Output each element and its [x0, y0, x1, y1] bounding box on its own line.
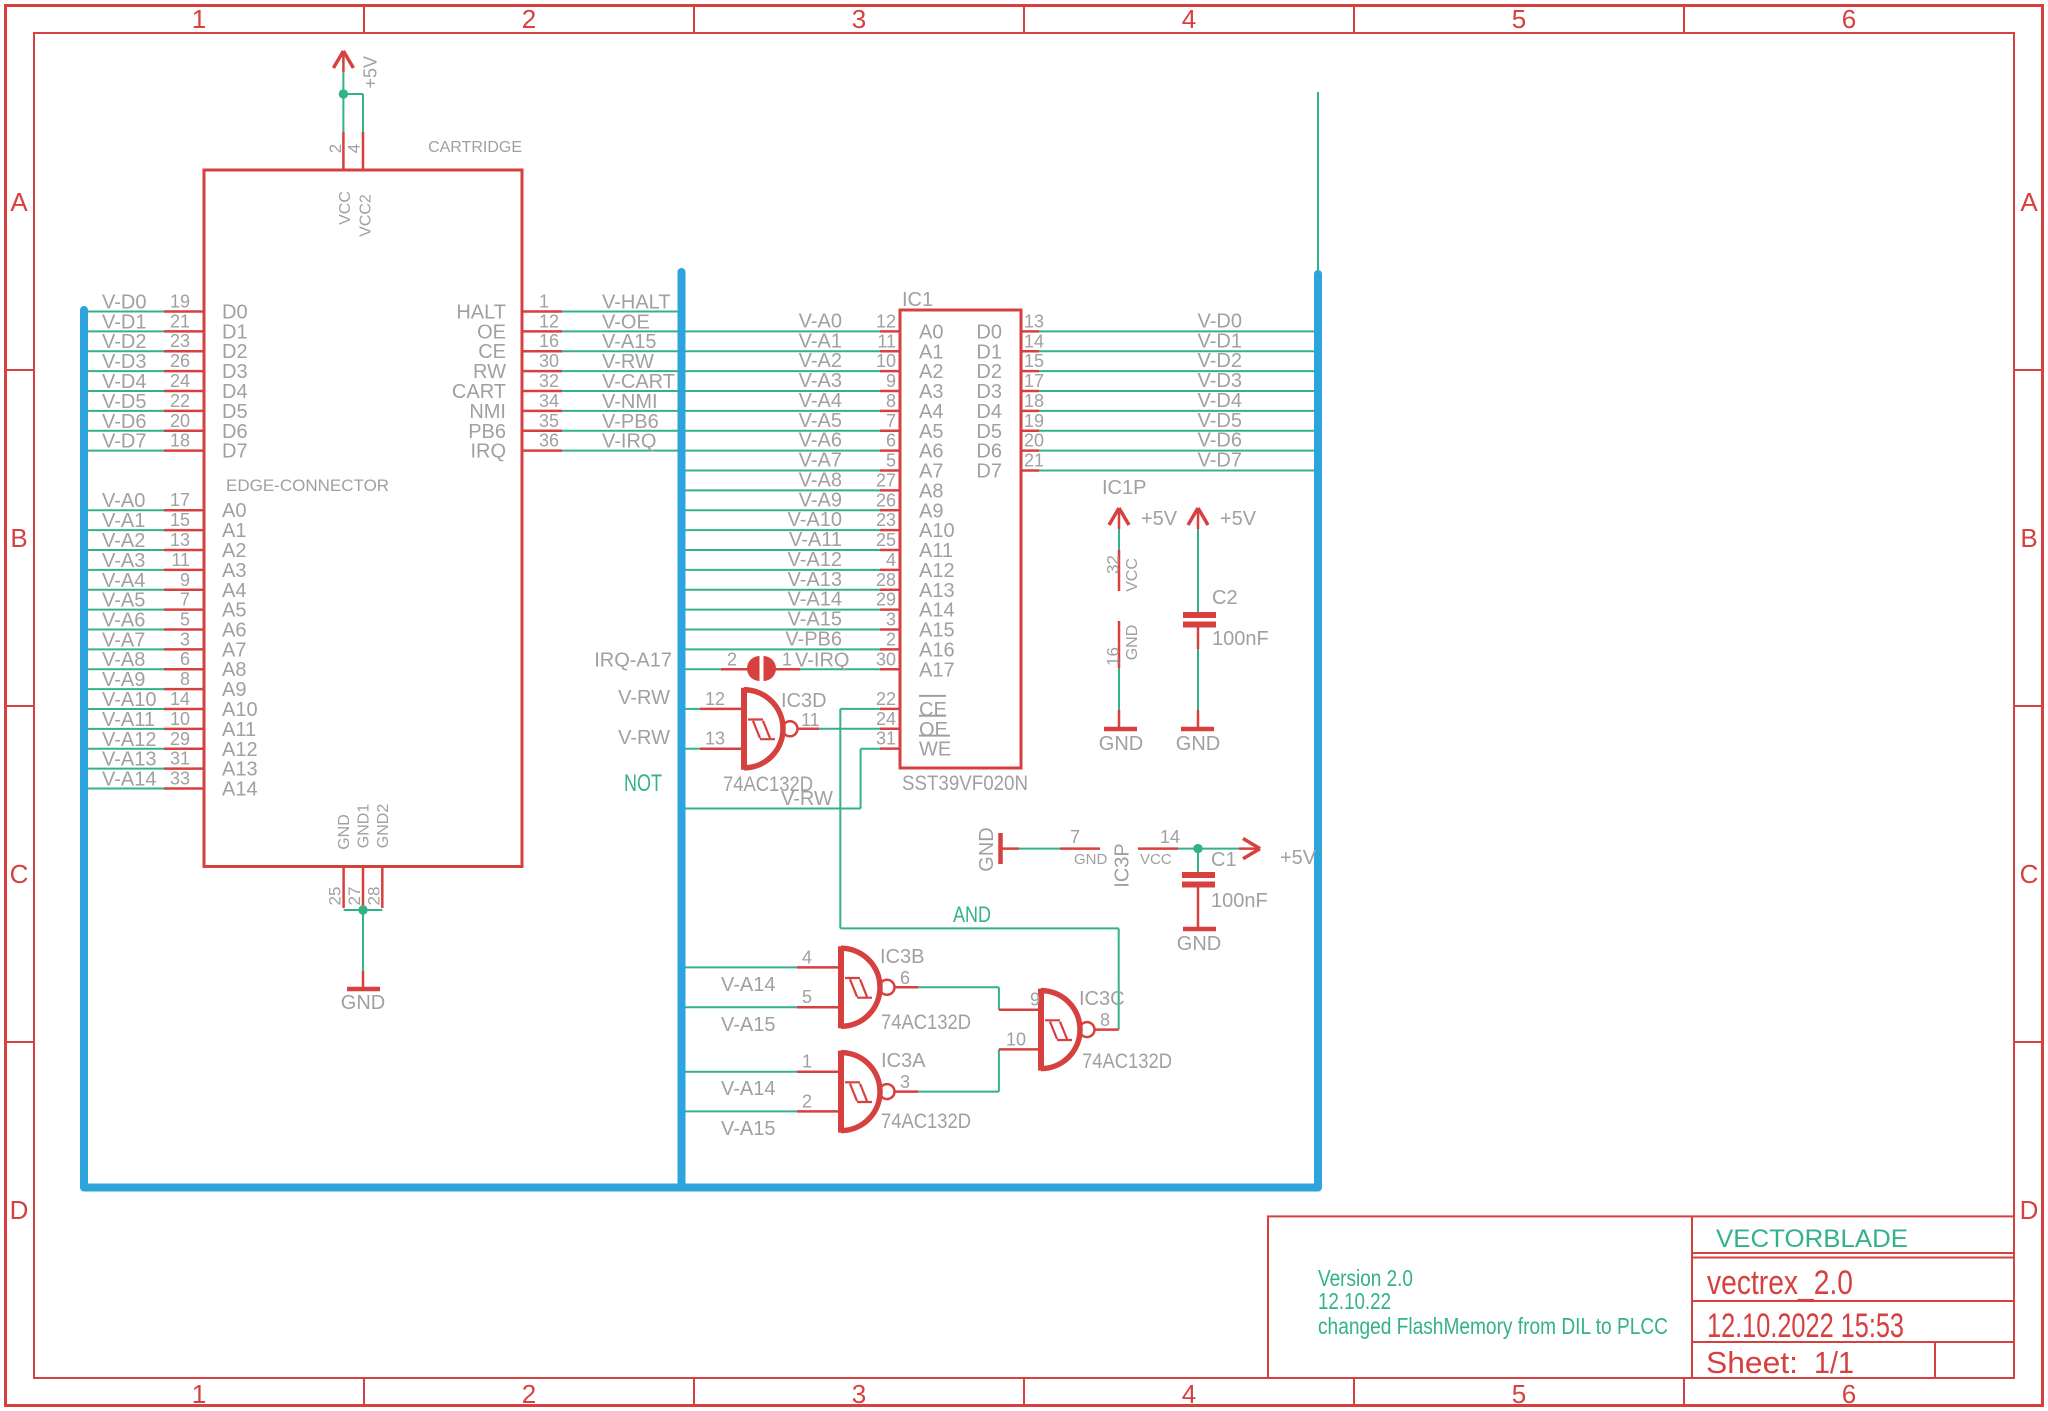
svg-text:D3: D3: [976, 381, 1002, 403]
svg-text:31: 31: [170, 749, 190, 769]
svg-text:A6: A6: [919, 441, 943, 463]
svg-text:74AC132D: 74AC132D: [881, 1110, 971, 1133]
svg-text:V-A14: V-A14: [721, 1078, 775, 1100]
wire V-D3 (IC1 D3 to bus): [1039, 370, 1314, 392]
ground (C2): [1176, 710, 1220, 755]
svg-text:6: 6: [1842, 1379, 1856, 1409]
svg-text:8: 8: [180, 669, 190, 689]
wire IC3B output to IC3C pin 9: [918, 987, 999, 1009]
svg-text:21: 21: [170, 311, 190, 331]
svg-text:V-A10: V-A10: [102, 689, 156, 711]
svg-text:OE: OE: [919, 719, 948, 741]
capacitor C1 100nF: [1182, 849, 1268, 912]
svg-text:V-A12: V-A12: [788, 549, 842, 571]
svg-text:V-D3: V-D3: [102, 351, 146, 373]
junction at cartridge +5V: [339, 89, 348, 98]
svg-text:CARTRIDGE: CARTRIDGE: [428, 139, 522, 156]
svg-text:D5: D5: [222, 401, 248, 423]
svg-text:A8: A8: [222, 659, 246, 681]
bus middle: [678, 272, 686, 1188]
svg-text:9: 9: [1030, 990, 1040, 1010]
svg-text:14: 14: [1160, 827, 1180, 847]
svg-text:36: 36: [539, 431, 559, 451]
svg-text:V-D7: V-D7: [102, 431, 146, 453]
svg-text:V-D2: V-D2: [102, 331, 146, 353]
svg-text:A8: A8: [919, 480, 943, 502]
svg-text:9: 9: [180, 570, 190, 590]
svg-text:C: C: [2020, 859, 2039, 889]
wire V-A1 (edge connector): [87, 510, 164, 532]
svg-text:100nF: 100nF: [1211, 890, 1268, 912]
wire V-PB6 (bus to IC1 A16): [685, 628, 880, 650]
svg-text:1: 1: [192, 1379, 206, 1409]
svg-text:VCC: VCC: [337, 191, 354, 225]
svg-text:74AC132D: 74AC132D: [881, 1011, 971, 1034]
svg-text:C1: C1: [1211, 849, 1237, 871]
svg-text:D1: D1: [222, 321, 248, 343]
svg-text:2: 2: [326, 144, 345, 153]
svg-text:D3: D3: [222, 361, 248, 383]
junction at C1/+5V: [1193, 844, 1202, 853]
svg-text:26: 26: [170, 351, 190, 371]
svg-text:12.10.2022 15:53: 12.10.2022 15:53: [1707, 1307, 1904, 1345]
svg-text:18: 18: [1024, 391, 1044, 411]
wire V-A14 (bus to IC3A pin 1): [685, 1072, 797, 1100]
wire V-A14 (bus to IC3B pin 4): [685, 967, 797, 996]
svg-text:13: 13: [705, 729, 725, 749]
wire V-D0: [87, 292, 164, 314]
svg-text:V-D0: V-D0: [1198, 310, 1242, 332]
svg-text:IC3B: IC3B: [880, 946, 924, 968]
svg-text:V-IRQ: V-IRQ: [795, 649, 849, 671]
svg-text:V-A13: V-A13: [788, 569, 842, 591]
wire V-A10 (edge connector): [87, 689, 164, 711]
svg-text:A14: A14: [919, 600, 955, 622]
wire V-A11 (bus to IC1 A11): [685, 529, 880, 551]
wire V-A8 (edge connector): [87, 649, 164, 671]
wire V-D7 (IC1 D7 to bus): [1039, 450, 1314, 472]
wire V-D0 (IC1 D0 to bus): [1039, 310, 1314, 332]
wire V-RW (cartridge to bus): [562, 351, 678, 373]
svg-text:IRQ-A17: IRQ-A17: [594, 649, 672, 671]
svg-text:V-D0: V-D0: [102, 292, 146, 314]
svg-text:V-A15: V-A15: [721, 1014, 775, 1036]
wire V-A2 (edge connector): [87, 530, 164, 552]
svg-text:11: 11: [877, 331, 896, 351]
svg-text:V-RW: V-RW: [618, 687, 670, 709]
svg-text:6: 6: [886, 431, 896, 451]
+5V supply (cartridge VCC): [333, 51, 380, 89]
svg-text:V-CART: V-CART: [602, 371, 675, 393]
wire V-A8 (bus to IC1 A8): [685, 469, 880, 491]
svg-text:4: 4: [886, 550, 896, 570]
svg-text:3: 3: [852, 4, 866, 34]
wire V-A15 (cartridge to bus): [562, 331, 678, 353]
ground (IC1P): [1099, 710, 1143, 755]
wire V-A9 (edge connector): [87, 669, 164, 691]
wire V-A6 (edge connector): [87, 610, 164, 632]
wire IC1 CE to IC3C output (AND): [840, 709, 1118, 1030]
svg-text:A5: A5: [919, 421, 943, 443]
svg-text:PB6: PB6: [468, 421, 506, 443]
svg-text:4: 4: [802, 947, 812, 967]
wire V-D7: [87, 431, 164, 453]
svg-text:changed FlashMemory from DIL t: changed FlashMemory from DIL to PLCC: [1318, 1313, 1668, 1339]
svg-text:A: A: [10, 187, 28, 217]
wire V-A13 (bus to IC1 A13): [685, 569, 880, 591]
svg-text:V-RW: V-RW: [618, 727, 670, 749]
svg-text:V-D3: V-D3: [1198, 370, 1242, 392]
svg-text:3: 3: [900, 1072, 910, 1092]
svg-text:EDGE-CONNECTOR: EDGE-CONNECTOR: [226, 476, 389, 495]
wire V-D4: [87, 371, 164, 393]
svg-text:D2: D2: [976, 361, 1002, 383]
wire V-A15 (bus to IC3B pin 5): [685, 1007, 797, 1036]
svg-text:V-D6: V-D6: [1198, 430, 1242, 452]
svg-text:1: 1: [782, 649, 792, 669]
svg-text:IC3P: IC3P: [1112, 843, 1134, 887]
svg-text:GND2: GND2: [375, 804, 392, 849]
nand gate IC3C 74AC132D: [999, 988, 1172, 1073]
svg-text:4: 4: [1182, 1379, 1196, 1409]
svg-text:A4: A4: [222, 580, 246, 602]
svg-text:A12: A12: [919, 560, 955, 582]
svg-text:IC1P: IC1P: [1102, 477, 1146, 499]
svg-text:A0: A0: [222, 500, 246, 522]
svg-text:5: 5: [1512, 4, 1526, 34]
svg-text:V-RW: V-RW: [602, 351, 654, 373]
svg-text:NOT: NOT: [624, 770, 662, 797]
svg-text:A13: A13: [919, 580, 955, 602]
IC3P VCC pin 14: [1138, 827, 1180, 868]
svg-text:31: 31: [876, 729, 896, 749]
svg-text:12: 12: [539, 311, 559, 331]
svg-text:V-D4: V-D4: [102, 371, 146, 393]
svg-text:16: 16: [1104, 647, 1123, 666]
wire V-HALT (cartridge to bus): [562, 292, 678, 314]
wire stub above right bus: [1317, 92, 1319, 270]
svg-text:A4: A4: [919, 401, 943, 423]
wire V-RW (bus to IC3D pin 12): [618, 687, 700, 709]
svg-text:8: 8: [886, 391, 896, 411]
wire V-A2 (bus to IC1 A2): [685, 350, 880, 372]
svg-text:+5V: +5V: [360, 56, 380, 89]
wire V-A15 (bus to IC1 A15): [685, 609, 880, 631]
svg-text:22: 22: [876, 689, 896, 709]
wire V-A13 (edge connector): [87, 749, 164, 771]
svg-text:28: 28: [364, 887, 383, 906]
+5V supply (IC1P VCC): [1102, 477, 1178, 530]
svg-text:D7: D7: [976, 461, 1002, 483]
svg-text:16: 16: [539, 331, 559, 351]
svg-text:V-PB6: V-PB6: [785, 628, 842, 650]
svg-text:A7: A7: [222, 639, 246, 661]
wire V-A6 (bus to IC1 A6): [685, 430, 880, 452]
svg-text:33: 33: [170, 769, 190, 789]
svg-text:4: 4: [1182, 4, 1196, 34]
svg-text:3: 3: [886, 610, 896, 630]
svg-text:A6: A6: [222, 620, 246, 642]
svg-text:24: 24: [170, 371, 190, 391]
junction at cartridge GND: [358, 905, 367, 914]
svg-text:V-HALT: V-HALT: [602, 292, 671, 314]
wire IC3D output to IC1 OE: [819, 728, 880, 730]
svg-text:V-A4: V-A4: [799, 390, 842, 412]
svg-text:15: 15: [170, 510, 190, 530]
svg-text:V-PB6: V-PB6: [602, 411, 659, 433]
svg-text:IC1: IC1: [902, 289, 933, 311]
svg-text:5: 5: [180, 610, 190, 630]
svg-text:V-OE: V-OE: [602, 311, 650, 333]
svg-text:OE: OE: [477, 321, 506, 343]
label NOT: [624, 770, 662, 797]
svg-text:V-A1: V-A1: [799, 330, 842, 352]
wire V-A5 (edge connector): [87, 590, 164, 612]
svg-text:28: 28: [876, 570, 896, 590]
wire V-D4 (IC1 D4 to bus): [1039, 390, 1314, 412]
wire V-A7 (edge connector): [87, 629, 164, 651]
svg-text:V-A8: V-A8: [799, 469, 842, 491]
svg-text:+5V: +5V: [1220, 508, 1257, 530]
svg-text:V-A11: V-A11: [102, 709, 155, 731]
svg-text:V-A6: V-A6: [102, 610, 145, 632]
svg-text:30: 30: [539, 351, 559, 371]
svg-text:D1: D1: [976, 341, 1002, 363]
svg-text:14: 14: [1024, 331, 1044, 351]
ground (cartridge): [341, 971, 385, 1014]
wire V-D5: [87, 391, 164, 413]
svg-text:27: 27: [876, 470, 896, 490]
svg-text:V-A10: V-A10: [788, 509, 842, 531]
svg-text:GND: GND: [1177, 933, 1221, 955]
svg-text:CE: CE: [478, 341, 506, 363]
svg-text:V-RW: V-RW: [781, 788, 833, 810]
wire V-A10 (bus to IC1 A10): [685, 509, 880, 531]
wire V-A0 (edge connector): [87, 490, 164, 512]
svg-text:74AC132D: 74AC132D: [1082, 1050, 1172, 1073]
svg-text:D4: D4: [222, 381, 248, 403]
IC3P GND pin 7: [1060, 827, 1134, 888]
wire V-OE (cartridge to bus): [562, 311, 678, 333]
wire V-A7 (bus to IC1 A7): [685, 450, 880, 472]
svg-text:V-IRQ: V-IRQ: [602, 431, 656, 453]
svg-text:SST39VF020N: SST39VF020N: [902, 772, 1028, 795]
svg-text:A12: A12: [222, 739, 258, 761]
wire V-D2 (IC1 D2 to bus): [1039, 350, 1314, 372]
wire V-D6 (IC1 D6 to bus): [1039, 430, 1314, 452]
svg-text:A3: A3: [222, 560, 246, 582]
svg-text:vectrex_2.0: vectrex_2.0: [1707, 1264, 1853, 1302]
svg-text:7: 7: [886, 411, 896, 431]
svg-text:V-D5: V-D5: [102, 391, 146, 413]
wire IRQ-A17 (bus to jumper pin 2): [594, 649, 749, 671]
svg-text:D0: D0: [222, 302, 248, 324]
svg-text:A17: A17: [919, 659, 955, 681]
svg-text:A5: A5: [222, 600, 246, 622]
svg-text:CART: CART: [452, 381, 506, 403]
wire C1 to ground: [1197, 888, 1200, 930]
svg-text:NMI: NMI: [469, 401, 506, 423]
IC1P GND pin 16: [1104, 621, 1142, 668]
svg-text:V-A9: V-A9: [799, 489, 842, 511]
svg-text:V-A5: V-A5: [799, 410, 842, 432]
svg-text:11: 11: [801, 710, 820, 730]
svg-text:30: 30: [876, 649, 896, 669]
svg-text:RW: RW: [473, 361, 506, 383]
title block: [1268, 1216, 2014, 1380]
wire V-A12 (bus to IC1 A12): [685, 549, 880, 571]
wire V-D1: [87, 311, 164, 333]
svg-text:V-D1: V-D1: [102, 311, 146, 333]
svg-text:GND: GND: [1099, 733, 1143, 755]
svg-text:V-A5: V-A5: [102, 590, 145, 612]
svg-text:21: 21: [1024, 451, 1044, 471]
wire C2 to ground: [1197, 628, 1200, 711]
wire IC3A output to IC3C pin 10: [918, 1049, 999, 1091]
svg-text:7: 7: [1070, 827, 1080, 847]
svg-text:D6: D6: [976, 441, 1002, 463]
wire cartridge GND pins 25/27/28 to ground: [344, 910, 383, 971]
svg-text:12.10.22: 12.10.22: [1318, 1288, 1391, 1314]
svg-text:23: 23: [170, 331, 190, 351]
wire IC3P VCC to +5V and C1: [1178, 849, 1239, 872]
svg-text:V-A15: V-A15: [788, 609, 842, 631]
capacitor C2 100nF: [1183, 587, 1269, 650]
svg-text:23: 23: [876, 510, 896, 530]
wire V-A0 (bus to IC1 A0): [685, 310, 880, 332]
wire V-A14 (bus to IC1 A14): [685, 589, 880, 611]
svg-text:V-A9: V-A9: [102, 669, 145, 691]
svg-text:V-A14: V-A14: [102, 769, 156, 791]
svg-text:2: 2: [522, 1379, 536, 1409]
svg-text:B: B: [10, 523, 27, 553]
svg-text:25: 25: [325, 887, 344, 906]
svg-text:D: D: [10, 1195, 29, 1225]
nand gate IC3B 74AC132D: [797, 946, 971, 1034]
ground (C1): [1177, 929, 1221, 955]
svg-text:V-D2: V-D2: [1198, 350, 1242, 372]
svg-text:32: 32: [539, 371, 559, 391]
svg-text:2: 2: [802, 1091, 812, 1111]
+5V supply (IC3P, right arrow): [1239, 839, 1317, 870]
svg-text:V-A6: V-A6: [799, 430, 842, 452]
svg-text:34: 34: [539, 391, 559, 411]
wire +5V to C2: [1197, 529, 1199, 612]
wire V-NMI (cartridge to bus): [562, 391, 678, 413]
svg-text:VCC2: VCC2: [358, 194, 375, 237]
svg-text:V-A15: V-A15: [602, 331, 656, 353]
svg-text:22: 22: [170, 391, 190, 411]
svg-text:V-D4: V-D4: [1198, 390, 1242, 412]
svg-text:5: 5: [1512, 1379, 1526, 1409]
svg-text:IRQ: IRQ: [470, 441, 506, 463]
svg-text:1: 1: [539, 292, 549, 312]
svg-text:A9: A9: [222, 679, 246, 701]
svg-text:V-A13: V-A13: [102, 749, 156, 771]
bus left + bottom + right (Vectrex edge bus): [84, 274, 1318, 1188]
wire V-A3 (edge connector): [87, 550, 164, 572]
svg-text:A16: A16: [919, 639, 955, 661]
svg-text:10: 10: [170, 709, 190, 729]
flash memory IC1 SST39VF020N: [876, 289, 1044, 795]
svg-text:19: 19: [170, 292, 190, 312]
svg-text:A10: A10: [222, 699, 258, 721]
svg-text:7: 7: [180, 590, 190, 610]
svg-text:1: 1: [192, 4, 206, 34]
label AND: [953, 902, 991, 927]
svg-text:V-A3: V-A3: [799, 370, 842, 392]
wire V-IRQ (jumper pin 1 to IC1 A17): [774, 649, 880, 671]
svg-text:29: 29: [876, 590, 896, 610]
svg-text:A1: A1: [222, 520, 246, 542]
wire V-A15 (bus to IC3A pin 2): [685, 1111, 797, 1140]
svg-text:HALT: HALT: [456, 302, 506, 324]
wire V-A3 (bus to IC1 A3): [685, 370, 880, 392]
wire V-D1 (IC1 D1 to bus): [1039, 330, 1314, 352]
svg-text:10: 10: [876, 351, 896, 371]
svg-text:GND: GND: [341, 992, 385, 1014]
svg-text:4: 4: [345, 144, 364, 153]
svg-text:V-D5: V-D5: [1198, 410, 1242, 432]
svg-text:D5: D5: [976, 421, 1002, 443]
svg-text:V-D1: V-D1: [1198, 330, 1242, 352]
svg-text:GND: GND: [1074, 851, 1108, 868]
svg-text:D: D: [2020, 1195, 2039, 1225]
svg-text:V-A11: V-A11: [789, 529, 842, 551]
svg-text:V-A4: V-A4: [102, 570, 145, 592]
svg-text:GND: GND: [976, 827, 998, 871]
svg-text:9: 9: [886, 371, 896, 391]
svg-text:A0: A0: [919, 321, 943, 343]
svg-text:17: 17: [170, 490, 190, 510]
wire +5V to IC1P VCC pin 32: [1118, 529, 1120, 550]
svg-text:6: 6: [1842, 4, 1856, 34]
svg-text:V-A3: V-A3: [102, 550, 145, 572]
wire V-A4 (bus to IC1 A4): [685, 390, 880, 412]
svg-text:+5V: +5V: [1141, 508, 1178, 530]
wire V-A14 (edge connector): [87, 769, 164, 791]
svg-text:A11: A11: [222, 719, 256, 741]
svg-text:24: 24: [876, 709, 896, 729]
svg-text:IC3D: IC3D: [781, 690, 827, 712]
wire V-A1 (bus to IC1 A1): [685, 330, 880, 352]
nand gate IC3A 74AC132D: [797, 1050, 971, 1133]
wire IC3P GND pin 7 to ground: [1019, 848, 1060, 850]
svg-text:29: 29: [170, 729, 190, 749]
svg-text:A10: A10: [919, 520, 955, 542]
svg-text:18: 18: [170, 431, 190, 451]
svg-text:32: 32: [1104, 555, 1123, 574]
wire V-PB6 (cartridge to bus): [562, 411, 678, 433]
svg-text:5: 5: [802, 987, 812, 1007]
svg-text:V-NMI: V-NMI: [602, 391, 658, 413]
wire V-A5 (bus to IC1 A5): [685, 410, 880, 432]
svg-text:5: 5: [886, 451, 896, 471]
svg-text:2: 2: [886, 629, 896, 649]
svg-text:V-A15: V-A15: [721, 1118, 775, 1140]
svg-text:2: 2: [522, 4, 536, 34]
solder jumper SJ1 (IRQ-A17 to V-IRQ): [747, 656, 776, 681]
svg-text:VCC: VCC: [1140, 851, 1172, 868]
svg-text:13: 13: [170, 530, 190, 550]
svg-text:GND: GND: [336, 814, 353, 850]
svg-text:B: B: [2020, 523, 2037, 553]
svg-text:CE: CE: [919, 699, 947, 721]
svg-text:A2: A2: [919, 361, 943, 383]
svg-text:19: 19: [1024, 411, 1044, 431]
svg-text:26: 26: [876, 490, 896, 510]
svg-text:V-A0: V-A0: [102, 490, 145, 512]
